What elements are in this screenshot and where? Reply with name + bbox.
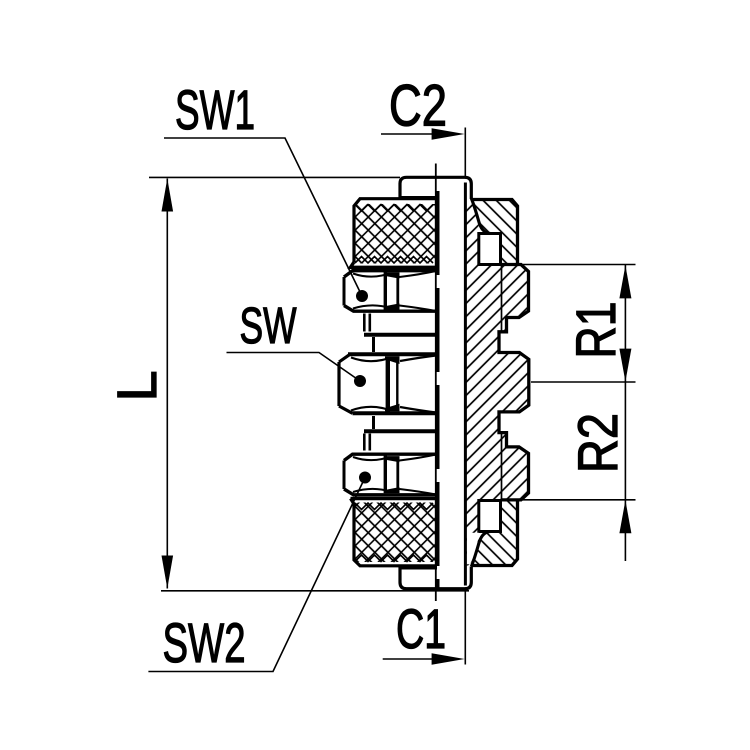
centerline [435,164,437,602]
section top block outline [472,200,518,265]
knurled section top: crosshatch [355,204,436,264]
svg-text:SW: SW [240,297,297,354]
svg-text:L: L [105,370,168,401]
dimension C1 extension [464,589,466,665]
section: nut top cross-hatch [471,200,518,265]
bottom cap [400,567,471,589]
bore edge line top [501,265,503,334]
dimension C1 arrow [432,653,465,665]
break line dashes [437,178,440,588]
hex nut SW [338,353,437,416]
fillet curve top [471,199,491,234]
neck below SW [372,416,375,429]
svg-text:C1: C1 [396,597,446,660]
knurl top teeth row [355,205,433,212]
dimension L line [166,179,168,589]
collar between SW and SW2 [364,434,370,451]
dimension R extension middle [531,381,636,383]
hex nut SW2 [343,453,438,497]
dimension L extension top [149,176,400,178]
fillet curve bottom [471,532,491,567]
dimension L arrow bottom [162,556,174,589]
collar edge line [364,333,437,337]
neck above SW [372,337,375,352]
dimension L extension bottom [161,590,469,592]
knurl top bottom edge [351,262,438,267]
leader dot SW [354,375,366,387]
knurled section bottom: crosshatch [355,503,436,563]
leader dot SW1 [356,290,368,302]
section: nut bottom cross-hatch [471,500,518,566]
dimension R2 arrow [619,500,631,533]
leader dot SW2 [359,472,371,484]
dimension R1 arrow top [619,265,631,298]
dimension R line [624,265,626,561]
relief notch bottom (white) [479,501,501,532]
section bottom block outline [472,500,518,566]
knurl bottom teeth row [355,257,433,264]
collar between SW1 and SW [364,314,370,332]
collar edge line 2 [364,429,437,433]
leader SW2 [148,478,365,672]
svg-text:SW2: SW2 [163,611,246,674]
dimension C2 arrow [432,128,465,140]
knurl top outline [354,199,437,262]
knurl2 outline [351,499,438,566]
dimension C1 line [383,658,440,660]
top cap [400,177,471,199]
relief notch top (white) [479,234,501,265]
svg-text:R2: R2 [566,413,629,473]
svg-text:SW1: SW1 [175,78,255,141]
dimension C2 extension [464,128,466,178]
dimension R extension bottom [521,499,636,501]
dimension C2 line [381,133,440,135]
svg-text:C2: C2 [389,74,447,139]
section threaded profile outline [499,265,529,500]
leader SW1 [164,138,362,296]
hex nut SW1 [343,269,438,313]
knurl2 top teeth row [355,503,433,510]
section: body threaded profile hatch [465,265,528,500]
dimension R extension top [521,264,636,266]
knurl2 bottom teeth row [355,555,433,562]
fillet wedge bottom (white) [467,533,479,565]
dimension R1 arrow bottom [619,349,631,382]
knurl2 top edge [351,497,438,500]
body left edge [464,183,467,586]
svg-text:R1: R1 [564,302,627,359]
leader SW [227,353,361,382]
bore edge line bottom [501,432,503,501]
section: body wall strip hatch [465,200,478,566]
dimension L arrow top [162,179,174,212]
